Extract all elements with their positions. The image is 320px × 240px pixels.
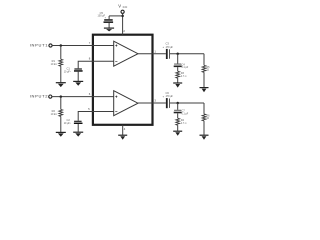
svg-text:4: 4: [124, 127, 126, 131]
IC U1 TDA2822M body: [93, 35, 153, 125]
svg-text:32: 32: [206, 69, 209, 71]
svg-text:INPUT2: INPUT2: [30, 93, 49, 98]
resistor R2: [59, 109, 63, 116]
svg-text:6: 6: [89, 92, 91, 96]
svg-text:R6: R6: [206, 114, 210, 117]
wire C2 to ground: [77, 124, 79, 132]
wire R6 to ground: [203, 121, 205, 135]
capacitor C3 (output coupling, electrolytic): [166, 49, 170, 59]
svg-text:+: +: [163, 94, 165, 98]
svg-text:7: 7: [89, 41, 91, 45]
ground (C1): [73, 81, 83, 85]
svg-text:4.7 Ω: 4.7 Ω: [181, 75, 187, 78]
wire R4 to ground: [177, 125, 179, 131]
ground (R5): [200, 88, 209, 93]
wire node to C7: [177, 103, 179, 110]
capacitor C1: [74, 68, 83, 71]
resistor R1: [59, 59, 63, 66]
svg-text:4.7 Ω: 4.7 Ω: [181, 122, 187, 125]
wire R2 to ground: [60, 116, 62, 132]
wire VCC junction to C5: [109, 15, 123, 17]
resistor R4 (snubber): [176, 118, 180, 125]
wire node to C4: [177, 54, 179, 64]
svg-text:2: 2: [123, 29, 125, 33]
wire C4 to R3: [177, 67, 179, 71]
svg-text:R3: R3: [181, 72, 185, 75]
svg-text:+: +: [70, 122, 72, 124]
svg-text:CC: CC: [123, 5, 129, 9]
svg-text:3: 3: [154, 99, 156, 103]
svg-text:8: 8: [89, 57, 91, 61]
wire junction to R2: [60, 97, 62, 110]
svg-text:C4: C4: [182, 63, 186, 66]
resistor R5 (load): [202, 65, 206, 72]
wire VCC to pin 2: [122, 13, 124, 34]
capacitor C7 (snubber): [174, 110, 182, 113]
wire C5 top stub: [108, 16, 110, 19]
wire load node 2 to R6: [203, 103, 205, 114]
wire load node to R5: [203, 54, 205, 66]
ground (R3): [173, 83, 182, 88]
wire C3 to load node: [170, 53, 204, 55]
capacitor C5 (supply bypass): [104, 19, 114, 23]
ground (R2): [56, 132, 66, 136]
junction INPUT1/R1: [60, 44, 63, 47]
svg-text:+: +: [70, 71, 72, 73]
wire C6 to load node: [170, 102, 204, 104]
op-amp U1A + input label: [115, 44, 117, 46]
svg-text:1: 1: [154, 49, 156, 53]
op-amp U1A - input label: [115, 60, 117, 62]
wire junction to R1: [60, 46, 62, 60]
wire R5 to ground: [203, 72, 205, 87]
svg-text:10 kΩ: 10 kΩ: [51, 63, 58, 66]
op-amp U1B + input label: [115, 96, 117, 98]
wire INPUT2 to pin 6: [52, 96, 114, 98]
resistor R3 (snubber): [176, 71, 180, 78]
svg-text:0.1 µF: 0.1 µF: [182, 113, 189, 115]
capacitor C6 (output coupling, electrolytic): [166, 98, 170, 108]
wire pin 4 to ground: [122, 125, 124, 135]
ground (R4): [173, 131, 182, 136]
svg-text:C7: C7: [182, 110, 186, 113]
wire C7 to R4: [177, 113, 179, 118]
wire R1 to ground: [60, 66, 62, 82]
junction INPUT2/R2: [60, 95, 63, 98]
node VCC terminal: [121, 10, 124, 13]
wire C2 to pin 5: [78, 112, 114, 121]
ground (IC pin 4): [118, 135, 127, 140]
junction output node 1: [176, 53, 179, 56]
wire R3 to ground: [177, 78, 179, 82]
capacitor C4 (snubber): [174, 64, 182, 68]
op-amp U1B: [114, 91, 138, 116]
svg-text:470 µF: 470 µF: [166, 95, 174, 98]
svg-text:0.1 µF: 0.1 µF: [182, 67, 189, 69]
capacitor C2: [74, 121, 83, 124]
wire pin 1 output to C3: [138, 53, 166, 55]
svg-text:10 kΩ: 10 kΩ: [51, 113, 58, 116]
svg-text:32: 32: [206, 118, 209, 120]
svg-text:470 µF: 470 µF: [166, 46, 174, 49]
ground (C5): [104, 28, 114, 31]
wire pin 3 output to C6: [138, 102, 166, 104]
svg-text:5: 5: [88, 107, 90, 111]
ground (R1): [56, 83, 66, 87]
svg-text:R5: R5: [206, 66, 210, 69]
wire C1 to ground: [77, 72, 79, 81]
wire C5 to ground: [108, 23, 110, 28]
svg-text:INPUT1: INPUT1: [30, 42, 49, 47]
ground (C2): [73, 132, 83, 136]
svg-text:V: V: [118, 4, 121, 9]
junction VCC/C5: [121, 15, 124, 18]
op-amp U1A: [114, 41, 138, 66]
svg-text:+: +: [163, 45, 165, 49]
resistor R6 (load): [202, 114, 206, 121]
op-amp U1B - input label: [115, 111, 117, 113]
ground (R6): [200, 135, 209, 140]
junction output node 2: [176, 102, 179, 105]
svg-text:R4: R4: [181, 119, 185, 122]
wire INPUT1 to pin 7: [52, 45, 113, 47]
wire C1 to pin 8: [78, 61, 114, 68]
